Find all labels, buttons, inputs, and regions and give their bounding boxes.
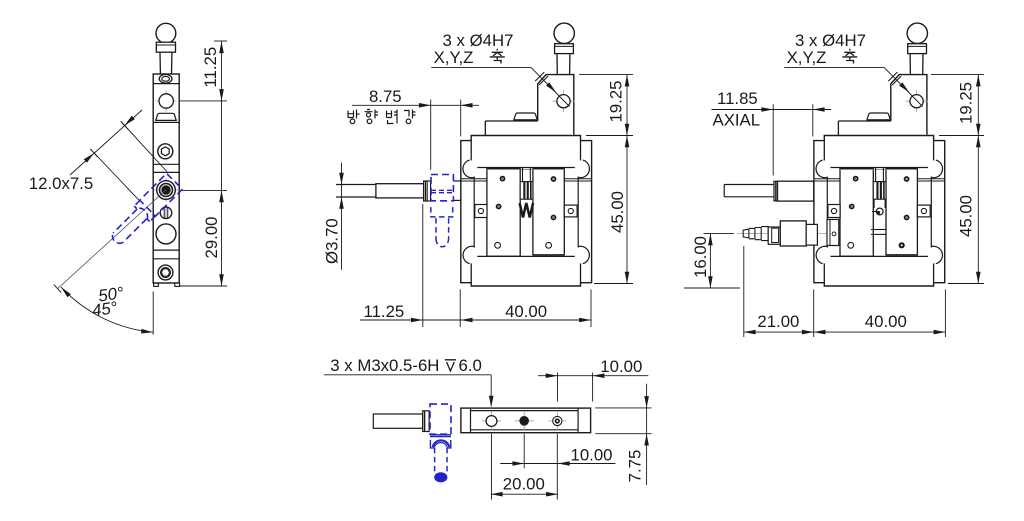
svg-text:11.25: 11.25 (201, 47, 220, 88)
angle dimension 50 / 45 deg (58, 190, 166, 289)
svg-text:19.25: 19.25 (957, 82, 976, 124)
side clamp left (right) (828, 205, 840, 218)
top cap screw oval (159, 75, 172, 84)
slotted screw below knob (160, 207, 172, 219)
svg-text:29.00: 29.00 (202, 216, 221, 258)
dimension 12.0x7.5 diagonal (70, 110, 142, 175)
bottom view body (461, 408, 591, 433)
actuator hex nut (right) (768, 227, 780, 244)
dovetail relief hooks (middle) (463, 160, 474, 178)
platform dome screw (right) (867, 113, 890, 119)
side clamp right (right) (917, 205, 930, 217)
svg-text:45.00: 45.00 (608, 191, 627, 233)
knob collar (right) (908, 44, 927, 54)
svg-text:3 x M3x0.5-6H: 3 x M3x0.5-6H (330, 356, 439, 375)
leader 3 x M3 label (bottom view) (324, 374, 491, 376)
platform dome screw (middle) (514, 113, 537, 119)
knob collar (left view) (156, 42, 175, 52)
carriage right panel (right) (886, 168, 917, 254)
side clamp left (middle) (475, 205, 487, 218)
korean text bang-hyang byeon-gyeong (direction change) (348, 111, 354, 118)
bottom view shaft collar (423, 411, 429, 432)
top platform step (middle) (485, 120, 537, 122)
carriage top edge line (right) (840, 169, 917, 171)
large hole circle lower (156, 224, 176, 244)
carriage left panel (right) (840, 168, 873, 256)
leader and label 3 x O4H7 (right) (784, 66, 884, 68)
cross slot band (right) (871, 229, 886, 231)
upper hole circle (156, 100, 177, 102)
blue knob folded down (bottom view) (430, 404, 451, 482)
bottom plate top edge (right) (830, 255, 928, 257)
svg-text:19.25: 19.25 (607, 81, 626, 123)
svg-text:8.75: 8.75 (369, 87, 402, 106)
dimension O3.70 (middle) (341, 163, 343, 270)
Z column (right) (891, 75, 927, 136)
svg-text:16.00: 16.00 (691, 236, 710, 278)
leader and label 3 x O4H7 (middle) (431, 66, 531, 68)
bottom dimensions 11.25 and 40.00 (middle) (360, 319, 591, 321)
rail ledges (middle) (462, 178, 487, 180)
plate corner verticals (right) (823, 141, 825, 161)
dimension 16.00 (right) (709, 234, 711, 288)
dovetail relief hooks (right) (816, 160, 827, 178)
knob stem (left view) (159, 52, 161, 74)
shaft rod (right) (723, 185, 725, 197)
carriage top edge line (middle) (487, 169, 564, 171)
carriage right panel (middle) (533, 168, 564, 254)
korean chuk (axis) middle (492, 49, 503, 56)
svg-text:45°: 45° (91, 298, 119, 320)
actuator clamp on rail (right) (827, 220, 839, 246)
Z column (middle) (538, 75, 574, 136)
tube to stage lines (middle) (453, 180, 460, 182)
shaft rod (middle) (336, 184, 376, 186)
column hole circle (middle) (553, 100, 575, 102)
top plate bottom edge (right) (830, 167, 928, 169)
left side view of XYZ stage (153, 23, 179, 286)
ball stem (middle) (556, 54, 558, 75)
svg-text:X,Y,Z: X,Y,Z (434, 48, 474, 67)
carriage lower holes (middle) (495, 242, 501, 248)
top plate bottom edge (middle) (477, 167, 575, 169)
svg-text:10.00: 10.00 (600, 357, 642, 376)
carriage left panel (middle) (487, 168, 520, 256)
svg-text:11.85: 11.85 (717, 89, 758, 108)
dimension 10.00 middle (bottom view) (500, 463, 615, 465)
dimension 20.00 (bottom view) (491, 493, 558, 495)
shaft tube (middle) (376, 184, 424, 198)
hex socket screw upper (158, 144, 173, 159)
main body outline (left view) (153, 74, 179, 283)
dimension 10.00 top (bottom view) (538, 375, 648, 377)
screw shank (middle) (522, 168, 524, 182)
dimension 7.75 (bottom view) (646, 384, 648, 485)
svg-text:AXIAL: AXIAL (713, 110, 761, 129)
right dimensions 19.25 and 45.00 (right) (977, 75, 979, 284)
svg-text:X,Y,Z: X,Y,Z (787, 48, 827, 67)
screw tip ball contact (right) (873, 199, 875, 208)
carriage screw dots (middle) (500, 176, 506, 182)
bottom plate top edge (middle) (477, 255, 575, 257)
svg-text:21.00: 21.00 (757, 312, 799, 331)
svg-text:40.00: 40.00 (865, 312, 907, 331)
svg-text:7.75: 7.75 (626, 450, 645, 483)
dimension 11.25 / 29.00 vertical line (221, 41, 223, 286)
right dimensions 19.25 and 45.00 (middle) (626, 75, 628, 284)
carriage screw dots (right) (853, 176, 859, 182)
black knob end view (154, 189, 178, 191)
return spring (middle) (520, 203, 534, 218)
knob collar (middle) (555, 44, 574, 54)
screw shank (right) (875, 168, 877, 182)
dome screw head side view (156, 113, 176, 120)
bottom dimensions 21.00 and 40.00 (right) (744, 331, 946, 333)
svg-text:11.25: 11.25 (364, 302, 405, 321)
rail inner edges (right) (826, 177, 828, 248)
rail ledges (right) (815, 178, 840, 180)
shaft collar (middle) (424, 181, 431, 201)
bottom view shaft rod (373, 414, 422, 428)
blue folded handle (left view, alternate position) (107, 173, 183, 249)
svg-text:10.00: 10.00 (571, 446, 613, 465)
ball stem (right) (909, 54, 911, 75)
top platform step (right) (838, 120, 890, 122)
ball knob top (middle) (554, 23, 574, 43)
svg-text:6.0: 6.0 (459, 356, 482, 375)
svg-text:45.00: 45.00 (957, 195, 976, 237)
hex socket screw lower (158, 265, 173, 280)
dimension 11.85 AXIAL (right) (712, 109, 832, 111)
dimension 8.75 (middle) (352, 104, 479, 106)
body feet (left view) (154, 283, 159, 286)
plate corner verticals (middle) (470, 141, 472, 161)
shaft collar (right) (774, 181, 778, 201)
carriage lower holes (right) (848, 242, 854, 248)
ball knob top (right) (907, 23, 927, 43)
actuator neck (right) (806, 224, 817, 245)
svg-text:20.00: 20.00 (503, 474, 545, 493)
blue knob alternate position (middle) (431, 175, 454, 247)
lower fine actuator (right) (737, 233, 838, 235)
ball knob top (left view) (156, 23, 176, 43)
korean chuk (axis) right (844, 49, 855, 56)
thread block (middle) (520, 182, 533, 200)
rail inner edges (middle) (473, 177, 475, 248)
actuator body (right) (780, 221, 806, 246)
bottom view holes (482, 420, 501, 422)
svg-text:12.0x7.5: 12.0x7.5 (29, 174, 93, 193)
thread block (right) (873, 182, 886, 200)
svg-text:Ø3.70: Ø3.70 (323, 218, 342, 264)
side clamp right (middle) (564, 205, 577, 217)
knob body axial (right) (778, 181, 814, 201)
column hole circle (right) (906, 100, 928, 102)
svg-text:40.00: 40.00 (505, 302, 547, 321)
stage outer frame (right) (814, 136, 945, 287)
stage outer frame (middle) (461, 136, 592, 287)
